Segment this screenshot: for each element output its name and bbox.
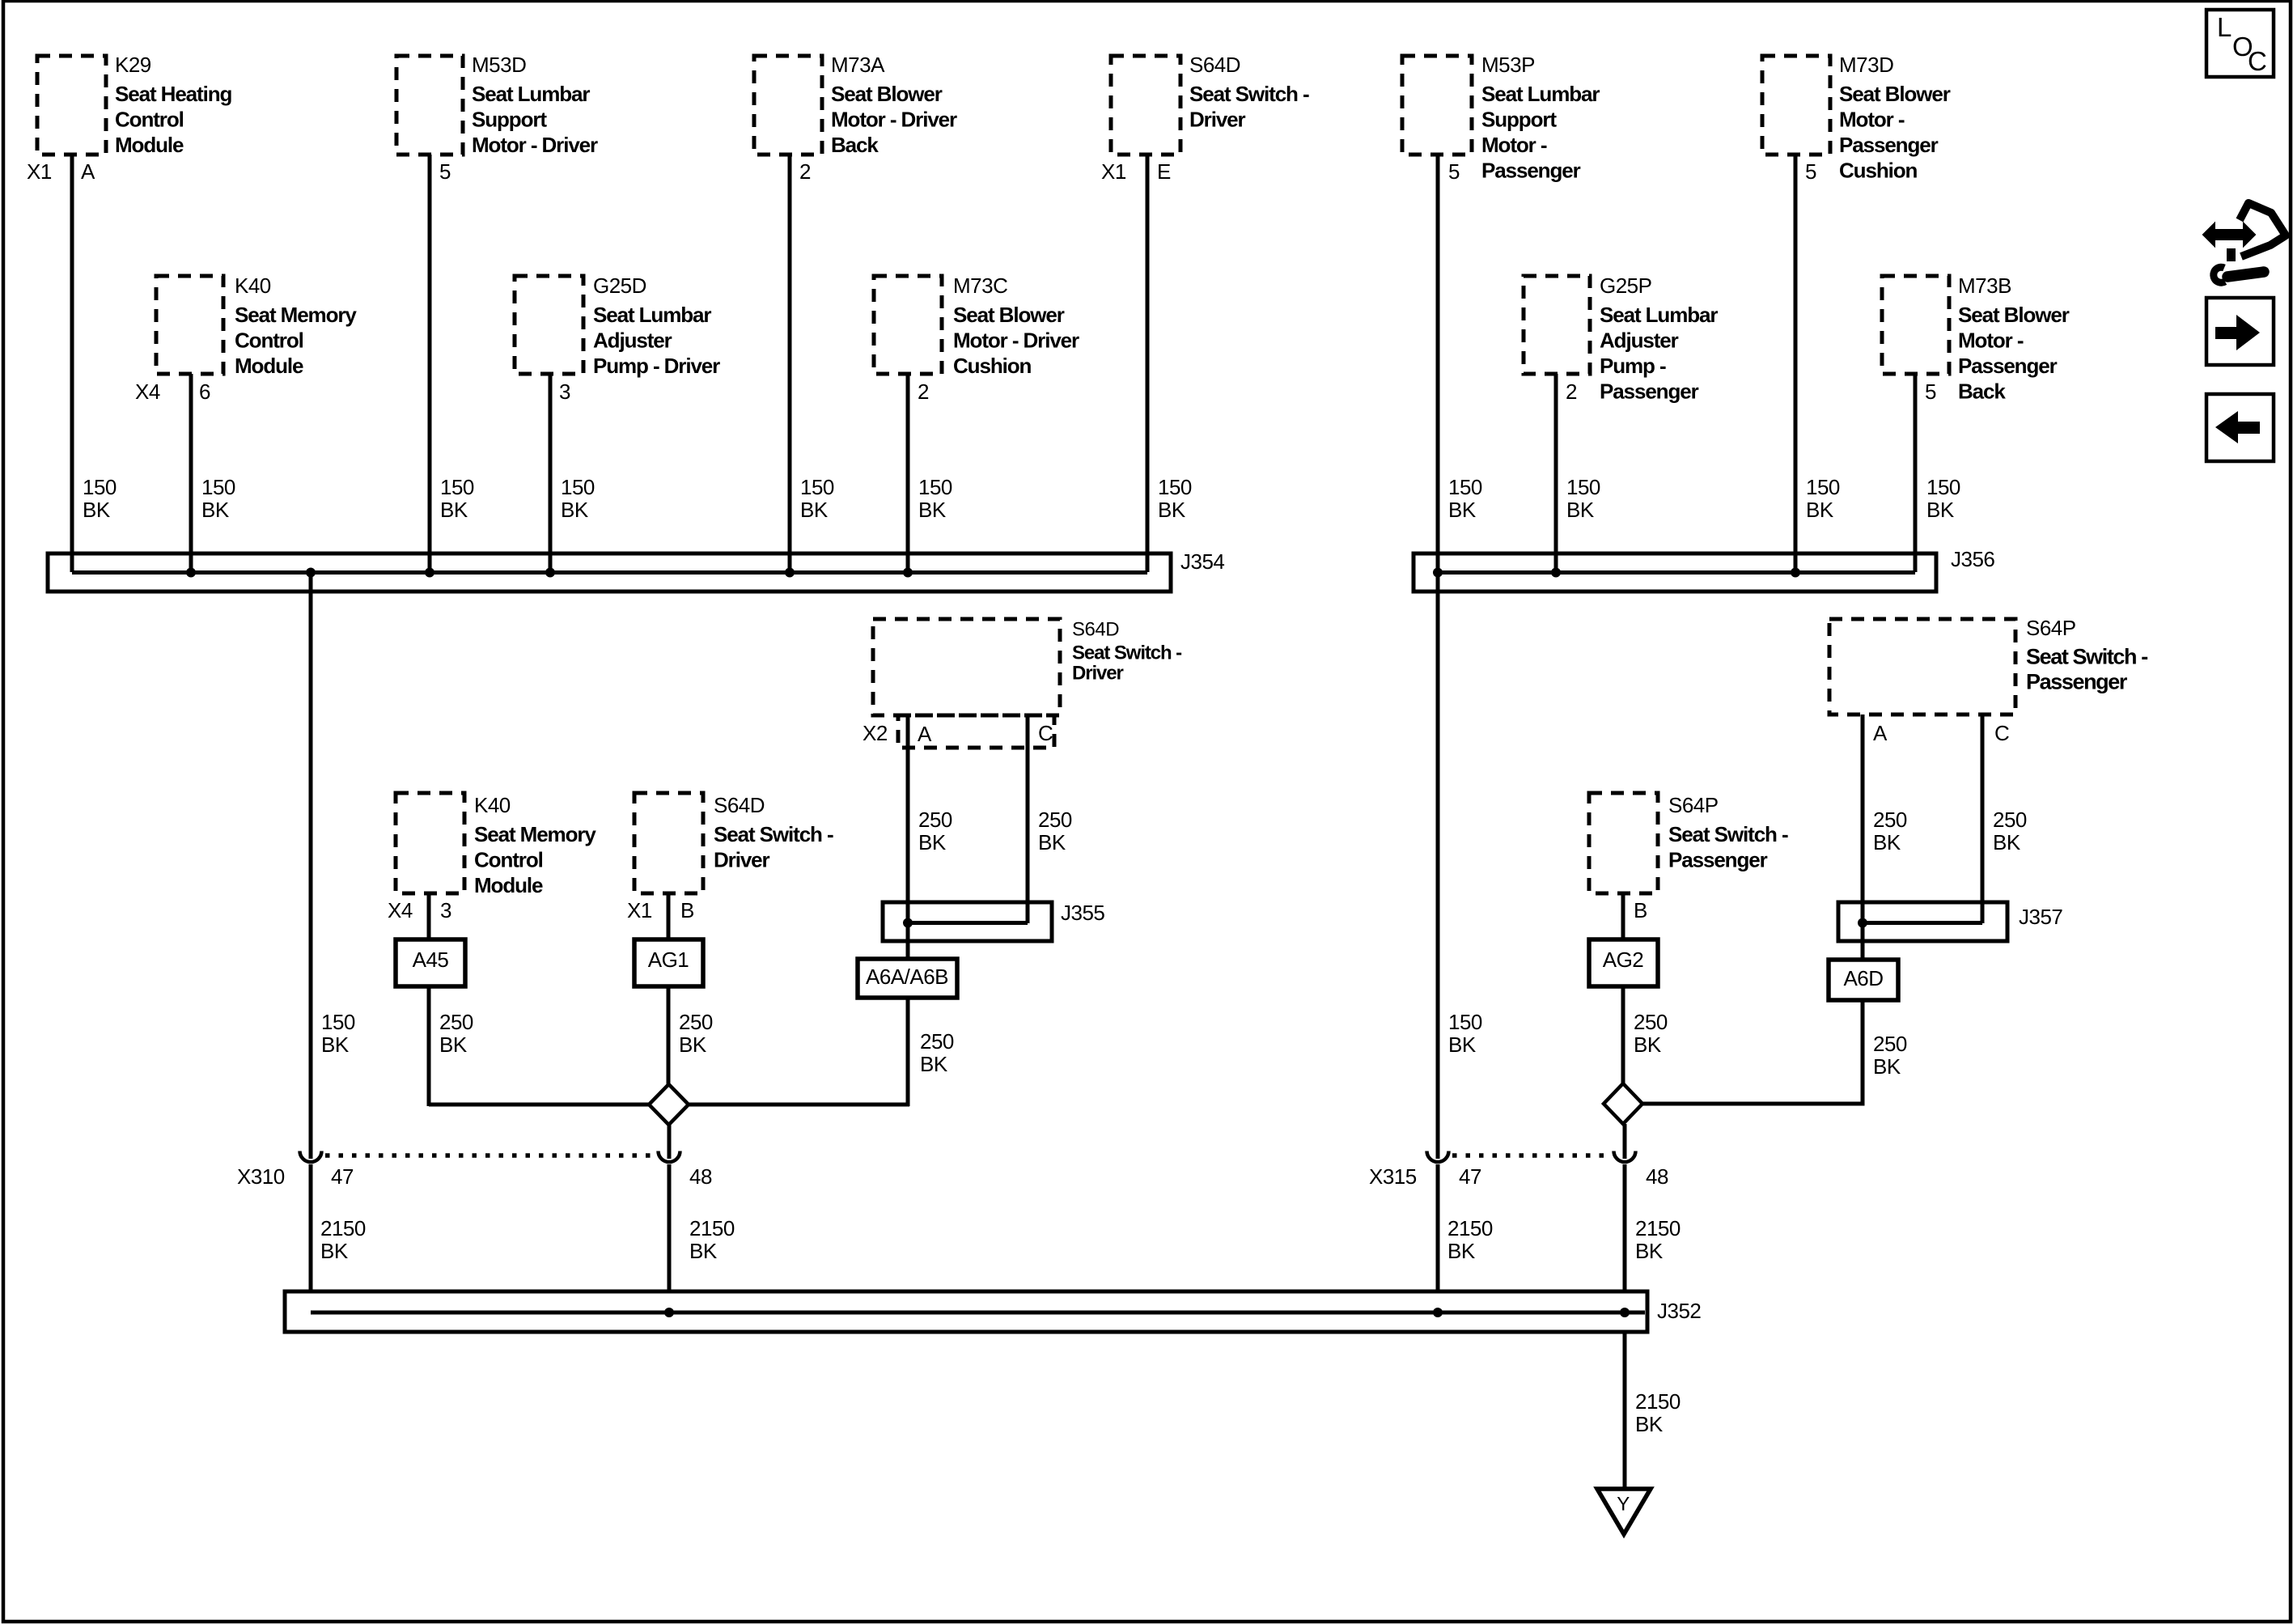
component K29 Seat Heating Control Module (dashed box) (37, 56, 106, 155)
svg-text:BK: BK (1038, 830, 1066, 854)
svg-text:Passenger: Passenger (1958, 354, 2058, 378)
svg-text:J354: J354 (1180, 549, 1224, 574)
svg-text:150: 150 (561, 475, 595, 499)
junction dot J354/M73C wire (903, 568, 913, 578)
svg-text:J355: J355 (1061, 901, 1104, 925)
svg-text:BK: BK (1806, 498, 1834, 522)
terminal AG2 (1589, 939, 1658, 986)
svg-text:Back: Back (1958, 379, 2006, 404)
svg-text:BK: BK (918, 830, 947, 854)
splice diamond S330 (passenger side) (1604, 1083, 1642, 1124)
wire A45 to splice (horizontal) (429, 1103, 649, 1107)
terminal A6D (1829, 960, 1898, 1000)
svg-text:BK: BK (920, 1052, 948, 1076)
legend LOC box (2206, 10, 2274, 77)
svg-text:5: 5 (1805, 159, 1816, 184)
svg-text:X4: X4 (135, 379, 160, 404)
junction block J354 (bus bar) (48, 553, 1171, 592)
junction block J352 (ground bus bar) (285, 1291, 1647, 1332)
svg-text:BK: BK (440, 498, 468, 522)
wire M53D pin 5 to J354 (428, 155, 432, 572)
svg-text:BK: BK (1926, 498, 1955, 522)
junction dot J352/48-left wire (664, 1308, 674, 1317)
svg-text:Y: Y (1617, 1494, 1630, 1516)
svg-text:Motor - Driver: Motor - Driver (831, 108, 957, 132)
connector X315 dotted line (1452, 1153, 1613, 1158)
wire S64P pin C to J357 (250 BK) (1981, 714, 1985, 923)
svg-text:BK: BK (1635, 1412, 1664, 1436)
svg-text:K40: K40 (474, 793, 511, 817)
svg-text:X2: X2 (863, 721, 888, 745)
junction dot J356/M73D wire (1791, 568, 1800, 578)
svg-text:2150: 2150 (1635, 1389, 1681, 1414)
svg-text:Driver: Driver (1072, 663, 1124, 685)
svg-text:BK: BK (918, 498, 947, 522)
junction block J355 (bus bar) (883, 902, 1052, 941)
svg-text:Seat Blower: Seat Blower (831, 82, 943, 106)
svg-text:Seat Switch -: Seat Switch - (714, 822, 833, 846)
svg-text:150: 150 (440, 475, 474, 499)
svg-text:250: 250 (920, 1029, 954, 1054)
component M73C Seat Blower Motor - Driver Cushion (dashed box) (874, 276, 942, 374)
svg-text:5: 5 (1925, 379, 1936, 404)
terminal A45 (396, 939, 465, 986)
svg-text:Seat Lumbar: Seat Lumbar (472, 82, 590, 106)
svg-text:Passenger: Passenger (1839, 133, 1939, 157)
svg-text:47: 47 (331, 1164, 354, 1189)
legend routing scribble icon (2203, 203, 2286, 282)
svg-text:250: 250 (918, 808, 952, 832)
junction dot J354/left trunk (306, 568, 316, 578)
svg-text:2150: 2150 (689, 1216, 735, 1240)
svg-text:Seat Switch -: Seat Switch - (2026, 645, 2147, 669)
svg-text:150: 150 (83, 475, 117, 499)
svg-text:BK: BK (1448, 498, 1477, 522)
component K40 Seat Memory Control Module (dashed box, lower) (396, 793, 464, 893)
svg-text:Module: Module (235, 354, 303, 378)
svg-text:Support: Support (1481, 108, 1557, 132)
wire splice to J352 (2150 BK, 48 right) (1623, 1124, 1627, 1312)
svg-text:Seat Blower: Seat Blower (953, 303, 1065, 327)
svg-text:BK: BK (1993, 830, 2021, 854)
svg-text:150: 150 (321, 1010, 355, 1034)
svg-text:J357: J357 (2019, 905, 2062, 929)
svg-text:Module: Module (474, 873, 543, 897)
svg-text:Motor - Driver: Motor - Driver (472, 133, 598, 157)
wire S64D pin A to A6A/A6B and splice (250 BK) (906, 715, 910, 1106)
svg-text:BK: BK (1873, 1054, 1901, 1079)
wire S64P pin A to A6D and splice (250 BK) (1861, 714, 1865, 1105)
junction block J356 (bus bar) (1414, 553, 1936, 592)
svg-text:150: 150 (201, 475, 235, 499)
svg-text:X310: X310 (237, 1164, 285, 1189)
svg-text:BK: BK (561, 498, 589, 522)
svg-text:Seat Lumbar: Seat Lumbar (593, 303, 711, 327)
svg-text:M53D: M53D (472, 53, 526, 77)
svg-text:AG1: AG1 (648, 948, 689, 972)
svg-text:48: 48 (689, 1164, 712, 1189)
wire S64P pin B to terminal AG2 and splice (250 BK) (1621, 893, 1625, 1085)
svg-text:2: 2 (1566, 379, 1577, 404)
wire M53P pin 5 to J356 (1436, 155, 1440, 572)
junction dot J352/47-right wire (1433, 1308, 1443, 1317)
svg-text:150: 150 (1448, 1010, 1482, 1034)
svg-text:2150: 2150 (1447, 1216, 1493, 1240)
svg-text:X1: X1 (627, 898, 652, 922)
component S64D Seat Switch - Driver (dashed box, lower) (634, 793, 703, 893)
svg-text:A6A/A6B: A6A/A6B (866, 965, 948, 989)
svg-text:Support: Support (472, 108, 547, 132)
svg-text:Adjuster: Adjuster (1600, 329, 1679, 353)
svg-text:Cushion: Cushion (1839, 159, 1918, 183)
junction dot J357/A wire (1858, 918, 1867, 928)
junction block J357 (bus bar) (1838, 902, 2007, 941)
svg-text:A45: A45 (413, 948, 449, 972)
svg-text:Passenger: Passenger (1668, 848, 1768, 872)
svg-text:BK: BK (439, 1032, 468, 1057)
wire K40 pin 3 to terminal A45 and splice (250 BK) (427, 893, 431, 1106)
component M73D Seat Blower Motor - Passenger Cushion (dashed box) (1762, 56, 1830, 155)
svg-text:J356: J356 (1951, 547, 1994, 571)
svg-text:C: C (1994, 721, 2009, 745)
svg-text:Driver: Driver (1189, 108, 1246, 132)
svg-text:Adjuster: Adjuster (593, 329, 672, 353)
svg-text:BK: BK (201, 498, 230, 522)
svg-text:S64P: S64P (1668, 793, 1719, 817)
svg-text:150: 150 (1448, 475, 1482, 499)
component M53D Seat Lumbar Support Motor - Driver (dashed box) (396, 56, 463, 155)
svg-text:5: 5 (1448, 159, 1460, 184)
wire S64D pin C to J355 (250 BK) (1026, 715, 1030, 923)
legend forward arrow box (2206, 298, 2274, 365)
wire splice to J352 (2150 BK, 48) (668, 1125, 672, 1312)
svg-text:BK: BK (689, 1239, 718, 1263)
wire S64D pin B to terminal AG1 and splice (250 BK) (667, 893, 671, 1086)
svg-text:Motor -: Motor - (1958, 329, 2024, 353)
svg-text:Driver: Driver (714, 848, 770, 872)
terminal A6A/A6B (858, 959, 957, 998)
svg-text:A6D: A6D (1843, 966, 1883, 990)
component G25P Seat Lumbar Adjuster Pump - Passenger (dashed box) (1524, 276, 1590, 374)
svg-text:X4: X4 (388, 898, 413, 922)
svg-text:Motor -: Motor - (1481, 133, 1547, 157)
svg-text:48: 48 (1646, 1164, 1668, 1189)
wire J356 to J352 (150 BK, right trunk) (1436, 572, 1440, 1312)
component K40 Seat Memory Control Module (dashed box, top) (156, 276, 223, 374)
svg-text:BK: BK (1448, 1032, 1477, 1057)
svg-text:Passenger: Passenger (1481, 159, 1581, 183)
svg-text:250: 250 (1634, 1010, 1668, 1034)
svg-text:250: 250 (679, 1010, 713, 1034)
connector X310 pass-through arc (pin 47) (302, 1147, 320, 1164)
wire M73C pin 2 to J354 (906, 374, 910, 572)
svg-text:BK: BK (83, 498, 111, 522)
junction dot J352/ground wire (1620, 1308, 1630, 1317)
svg-text:BK: BK (321, 1032, 350, 1057)
junction dot J356/M53P wire (1433, 568, 1443, 578)
svg-text:BK: BK (320, 1239, 349, 1263)
wire K40 pin 6 to J354 (189, 374, 193, 572)
junction dot J354/K40 wire (186, 568, 196, 578)
svg-text:Seat Switch -: Seat Switch - (1189, 82, 1309, 106)
ground symbol Y (G403) (1597, 1489, 1651, 1534)
svg-text:BK: BK (1566, 498, 1595, 522)
junction dot J356/G25P wire (1551, 568, 1561, 578)
component M73A Seat Blower Motor - Driver Back (dashed box) (754, 56, 822, 155)
svg-text:Control: Control (235, 329, 303, 353)
wire M73A pin 2 to J354 (788, 155, 792, 572)
svg-text:L: L (2217, 12, 2232, 42)
svg-text:M73D: M73D (1839, 53, 1893, 77)
svg-text:M73A: M73A (831, 53, 885, 77)
svg-text:A: A (1873, 721, 1888, 745)
svg-text:B: B (1634, 898, 1647, 922)
svg-text:2: 2 (918, 379, 929, 404)
svg-text:150: 150 (918, 475, 952, 499)
wire A6D to splice (horizontal) (1642, 1102, 1865, 1106)
component S64P Seat Switch - Passenger (wide dashed box) (1829, 619, 2015, 714)
svg-text:Seat Switch -: Seat Switch - (1072, 642, 1182, 664)
svg-text:X1: X1 (27, 159, 52, 184)
svg-text:150: 150 (800, 475, 834, 499)
component G25D Seat Lumbar Adjuster Pump - Driver (dashed box) (515, 276, 583, 374)
svg-text:M53P: M53P (1481, 53, 1535, 77)
svg-text:6: 6 (199, 379, 210, 404)
svg-text:2150: 2150 (320, 1216, 366, 1240)
svg-text:BK: BK (1158, 498, 1186, 522)
svg-text:150: 150 (1806, 475, 1840, 499)
component M53P Seat Lumbar Support Motor - Passenger (dashed box) (1402, 56, 1472, 155)
legend backward arrow box (2206, 394, 2274, 461)
svg-text:Seat Lumbar: Seat Lumbar (1481, 82, 1600, 106)
connector X310 dotted line (325, 1153, 657, 1158)
svg-text:X1: X1 (1101, 159, 1126, 184)
svg-text:2: 2 (799, 159, 811, 184)
svg-text:150: 150 (1926, 475, 1960, 499)
terminal AG1 (634, 939, 703, 986)
svg-text:Control: Control (474, 848, 543, 872)
svg-text:Seat Heating: Seat Heating (115, 82, 232, 106)
junction dot J354/M53D wire (425, 568, 434, 578)
svg-text:250: 250 (1038, 808, 1072, 832)
svg-text:Seat Memory: Seat Memory (474, 822, 596, 846)
svg-text:S64D: S64D (1072, 619, 1119, 641)
svg-text:3: 3 (559, 379, 570, 404)
svg-text:BK: BK (1635, 1239, 1664, 1263)
wire J352 to ground G403 (2150 BK) (1623, 1332, 1627, 1490)
svg-text:AG2: AG2 (1603, 948, 1644, 972)
svg-text:A: A (918, 722, 932, 746)
svg-text:3: 3 (440, 898, 451, 922)
svg-text:Cushion: Cushion (953, 354, 1032, 378)
svg-text:Back: Back (831, 133, 879, 157)
svg-text:250: 250 (1993, 808, 2027, 832)
svg-text:Pump -: Pump - (1600, 354, 1666, 378)
svg-text:150: 150 (1158, 475, 1192, 499)
svg-text:Passenger: Passenger (2026, 670, 2128, 694)
svg-text:K40: K40 (235, 273, 271, 298)
svg-text:5: 5 (439, 159, 451, 184)
svg-text:BK: BK (1634, 1032, 1662, 1057)
svg-text:BK: BK (679, 1032, 707, 1057)
bus line J355 (908, 921, 1028, 925)
connector X310 pass-through arc (pin 48) (660, 1147, 678, 1164)
svg-text:250: 250 (1873, 1032, 1907, 1056)
wire A6A/A6B to splice (horizontal) (689, 1103, 909, 1107)
component S64D Seat Switch - Driver (dashed box, top) (1111, 56, 1180, 155)
svg-text:S64D: S64D (714, 793, 765, 817)
wire M73D pin 5 to J356 (1794, 155, 1798, 572)
junction dot J354/M73A wire (785, 568, 795, 578)
svg-text:Module: Module (115, 133, 184, 157)
svg-text:J352: J352 (1657, 1299, 1701, 1323)
svg-text:X315: X315 (1369, 1164, 1417, 1189)
connector X315 pass-through arc (pin 47) (1429, 1147, 1447, 1164)
svg-text:Seat Blower: Seat Blower (1958, 303, 2070, 327)
svg-text:A: A (81, 159, 95, 184)
component S64D Seat Switch - Driver (wide dashed box with X2 connector) (873, 619, 1060, 748)
wire G25D pin 3 to J354 (549, 374, 553, 572)
svg-text:M73C: M73C (953, 273, 1007, 298)
svg-text:S64D: S64D (1189, 53, 1240, 77)
svg-text:M73B: M73B (1958, 273, 2011, 298)
svg-text:Seat Switch -: Seat Switch - (1668, 822, 1788, 846)
wire K29 pin A to J354 (70, 155, 74, 572)
svg-text:G25P: G25P (1600, 273, 1652, 298)
svg-text:Seat Blower: Seat Blower (1839, 82, 1951, 106)
svg-text:Motor -: Motor - (1839, 108, 1905, 132)
svg-text:250: 250 (439, 1010, 473, 1034)
svg-text:250: 250 (1873, 808, 1907, 832)
svg-text:BK: BK (800, 498, 829, 522)
svg-text:G25D: G25D (593, 273, 646, 298)
splice diamond S230 (driver side) (649, 1084, 689, 1125)
svg-text:C: C (1038, 721, 1053, 745)
svg-text:C: C (2248, 46, 2267, 76)
svg-text:47: 47 (1459, 1164, 1481, 1189)
component M73B Seat Blower Motor - Passenger Back (dashed box) (1882, 276, 1949, 374)
svg-text:E: E (1157, 159, 1171, 184)
svg-text:150: 150 (1566, 475, 1600, 499)
svg-text:B: B (680, 898, 694, 922)
connector X315 pass-through arc (pin 48) (1616, 1147, 1634, 1164)
junction dot J355/A wire (903, 918, 913, 928)
svg-text:BK: BK (1873, 830, 1901, 854)
svg-text:K29: K29 (115, 53, 151, 77)
svg-text:Passenger: Passenger (1600, 379, 1699, 404)
wire J354 to J352 (150 BK, left trunk) (309, 572, 313, 1312)
wire M73B pin 5 to J356 (1914, 374, 1918, 572)
wire S64D pin E to J354 (1146, 155, 1150, 572)
component S64P Seat Switch - Passenger (dashed box, lower) (1589, 793, 1658, 893)
svg-text:Motor - Driver: Motor - Driver (953, 329, 1079, 353)
svg-text:S64P: S64P (2026, 616, 2076, 640)
svg-text:BK: BK (1447, 1239, 1476, 1263)
svg-text:2150: 2150 (1635, 1216, 1681, 1240)
svg-text:Seat Lumbar: Seat Lumbar (1600, 303, 1718, 327)
wire G25P pin 2 to J356 (1554, 374, 1558, 572)
svg-text:Control: Control (115, 108, 184, 132)
svg-text:Seat Memory: Seat Memory (235, 303, 357, 327)
junction dot J354/G25D wire (545, 568, 555, 578)
bus line J357 (1863, 921, 1982, 925)
svg-text:Pump - Driver: Pump - Driver (593, 354, 720, 378)
